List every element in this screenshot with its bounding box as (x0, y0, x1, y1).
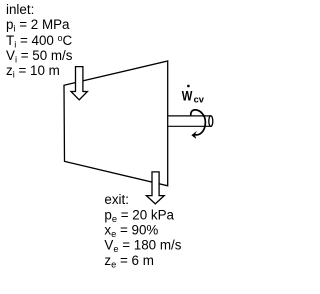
shaft rotation arrow (191, 110, 206, 139)
svg-text:exit:: exit: (104, 192, 129, 207)
svg-text:pi = 2 MPa: pi = 2 MPa (6, 17, 70, 34)
svg-text:inlet:: inlet: (6, 2, 34, 17)
overdot of W (187, 85, 189, 87)
rotation arc (191, 110, 206, 135)
shaft top line (168, 115, 211, 117)
exit state text block (104, 192, 181, 269)
shaft end cap (209, 116, 213, 127)
svg-text:zi = 10 m: zi = 10 m (6, 63, 60, 80)
svg-text:Ve = 180 m/s: Ve = 180 m/s (104, 238, 181, 255)
svg-text:xe = 90%: xe = 90% (104, 223, 158, 240)
rotation arrowhead (191, 131, 197, 139)
shaft bottom line (168, 125, 211, 127)
svg-text:pe = 20 kPa: pe = 20 kPa (104, 207, 174, 224)
svg-text:Vi = 50 m/s: Vi = 50 m/s (6, 48, 73, 65)
svg-text:W: W (182, 88, 193, 103)
svg-text:ze = 6 m: ze = 6 m (104, 253, 153, 270)
svg-text:Ti = 400 oC: Ti = 400 oC (6, 33, 73, 50)
inlet flow arrow (71, 67, 87, 100)
svg-text:cv: cv (194, 94, 205, 104)
inlet state text block (6, 2, 73, 79)
output shaft (168, 116, 213, 127)
turbine body (64, 61, 168, 186)
label W_cv (rate of work) (182, 85, 205, 105)
exit flow arrow (146, 172, 164, 204)
